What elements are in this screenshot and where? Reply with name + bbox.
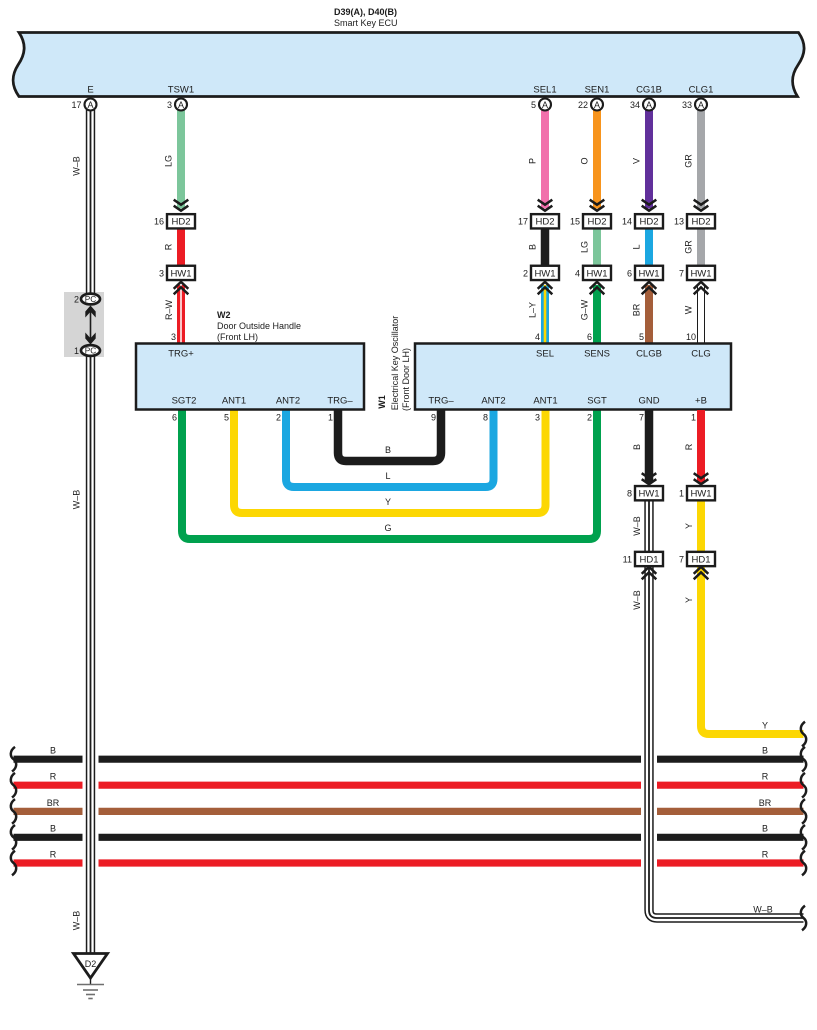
svg-text:SEL: SEL xyxy=(536,349,554,360)
svg-text:Smart Key ECU: Smart Key ECU xyxy=(334,18,398,28)
svg-text:3: 3 xyxy=(171,332,176,342)
svg-text:R: R xyxy=(164,243,174,250)
svg-text:W–B: W–B xyxy=(632,590,642,610)
svg-text:Door Outside Handle: Door Outside Handle xyxy=(217,321,301,331)
svg-text:R: R xyxy=(762,772,769,782)
svg-text:R: R xyxy=(50,772,57,782)
svg-text:R–W: R–W xyxy=(164,299,174,320)
svg-text:ANT1: ANT1 xyxy=(533,396,557,407)
svg-text:TRG+: TRG+ xyxy=(168,349,194,360)
svg-text:Electrical Key Oscillator: Electrical Key Oscillator xyxy=(390,316,400,411)
svg-text:6: 6 xyxy=(172,413,177,423)
svg-text:V: V xyxy=(632,158,642,164)
svg-text:BR: BR xyxy=(47,798,60,808)
svg-text:SENS: SENS xyxy=(584,349,610,360)
svg-text:G: G xyxy=(384,523,391,533)
svg-text:GR: GR xyxy=(684,154,694,168)
svg-text:W–B: W–B xyxy=(632,516,642,536)
svg-text:5: 5 xyxy=(531,100,536,110)
svg-text:BR: BR xyxy=(759,798,772,808)
svg-text:CG1B: CG1B xyxy=(636,85,662,96)
svg-text:34: 34 xyxy=(630,100,640,110)
svg-text:ANT2: ANT2 xyxy=(276,396,300,407)
svg-text:B: B xyxy=(50,824,56,834)
svg-text:R: R xyxy=(50,849,57,859)
svg-text:4: 4 xyxy=(575,268,580,278)
svg-text:7: 7 xyxy=(679,268,684,278)
svg-text:1: 1 xyxy=(328,413,333,423)
svg-text:CLG1: CLG1 xyxy=(689,85,714,96)
svg-text:SEL1: SEL1 xyxy=(533,85,556,96)
svg-text:TRG–: TRG– xyxy=(428,396,454,407)
svg-text:O: O xyxy=(580,157,590,164)
svg-text:5: 5 xyxy=(224,413,229,423)
svg-text:10: 10 xyxy=(686,332,696,342)
svg-text:SGT2: SGT2 xyxy=(172,396,197,407)
svg-text:R: R xyxy=(762,849,769,859)
svg-text:6: 6 xyxy=(587,332,592,342)
svg-text:1: 1 xyxy=(679,489,684,499)
svg-text:W–B: W–B xyxy=(753,904,773,914)
svg-text:E: E xyxy=(87,85,93,96)
svg-text:B: B xyxy=(385,445,391,455)
svg-text:B: B xyxy=(762,824,768,834)
svg-text:2: 2 xyxy=(276,413,281,423)
svg-text:22: 22 xyxy=(578,100,588,110)
svg-text:3: 3 xyxy=(159,268,164,278)
svg-text:Y: Y xyxy=(385,497,391,507)
svg-text:+B: +B xyxy=(695,396,707,407)
svg-text:8: 8 xyxy=(627,489,632,499)
svg-text:GR: GR xyxy=(684,240,694,254)
svg-text:W: W xyxy=(684,305,694,314)
svg-text:CLGB: CLGB xyxy=(636,349,662,360)
svg-text:5: 5 xyxy=(639,332,644,342)
svg-text:33: 33 xyxy=(682,100,692,110)
svg-text:SEN1: SEN1 xyxy=(585,85,610,96)
svg-text:W–B: W–B xyxy=(72,490,82,510)
svg-text:D2: D2 xyxy=(85,959,97,969)
svg-text:2: 2 xyxy=(587,413,592,423)
svg-text:(Front Door LH): (Front Door LH) xyxy=(401,348,411,411)
svg-text:13: 13 xyxy=(674,217,684,227)
svg-text:B: B xyxy=(528,244,538,250)
svg-text:17: 17 xyxy=(71,100,81,110)
svg-text:LG: LG xyxy=(164,155,174,167)
svg-text:16: 16 xyxy=(154,217,164,227)
svg-text:15: 15 xyxy=(570,217,580,227)
svg-text:L–Y: L–Y xyxy=(528,302,538,318)
svg-text:W1: W1 xyxy=(377,395,387,409)
svg-text:W–B: W–B xyxy=(72,911,82,931)
svg-text:W–B: W–B xyxy=(72,156,82,176)
svg-text:G–W: G–W xyxy=(580,299,590,320)
svg-text:17: 17 xyxy=(518,217,528,227)
svg-text:L: L xyxy=(632,244,642,249)
svg-text:GND: GND xyxy=(638,396,659,407)
svg-text:LG: LG xyxy=(580,241,590,253)
svg-text:W2: W2 xyxy=(217,310,231,320)
svg-text:SGT: SGT xyxy=(587,396,607,407)
svg-text:(Front LH): (Front LH) xyxy=(217,332,258,342)
svg-text:R: R xyxy=(684,443,694,450)
svg-text:BR: BR xyxy=(632,303,642,316)
svg-text:TSW1: TSW1 xyxy=(168,85,194,96)
svg-text:L: L xyxy=(385,471,390,481)
svg-text:ANT2: ANT2 xyxy=(481,396,505,407)
svg-text:Y: Y xyxy=(762,720,768,730)
svg-text:Y: Y xyxy=(684,597,694,603)
svg-text:1: 1 xyxy=(74,346,79,356)
svg-text:Y: Y xyxy=(684,523,694,529)
svg-text:11: 11 xyxy=(623,554,632,564)
svg-text:1: 1 xyxy=(691,413,696,423)
svg-text:9: 9 xyxy=(431,413,436,423)
svg-text:14: 14 xyxy=(622,217,632,227)
svg-text:TRG–: TRG– xyxy=(327,396,353,407)
svg-text:6: 6 xyxy=(627,268,632,278)
svg-text:7: 7 xyxy=(679,554,684,564)
svg-text:ANT1: ANT1 xyxy=(222,396,246,407)
svg-text:D39(A), D40(B): D39(A), D40(B) xyxy=(334,7,397,17)
svg-text:2: 2 xyxy=(523,268,528,278)
svg-text:2: 2 xyxy=(74,294,79,304)
svg-text:3: 3 xyxy=(535,413,540,423)
svg-text:7: 7 xyxy=(639,413,644,423)
svg-text:B: B xyxy=(50,746,56,756)
svg-text:4: 4 xyxy=(535,332,540,342)
svg-text:3: 3 xyxy=(167,100,172,110)
svg-text:B: B xyxy=(762,746,768,756)
svg-text:CLG: CLG xyxy=(691,349,711,360)
svg-text:8: 8 xyxy=(483,413,488,423)
svg-text:B: B xyxy=(632,444,642,450)
svg-text:P: P xyxy=(528,158,538,164)
